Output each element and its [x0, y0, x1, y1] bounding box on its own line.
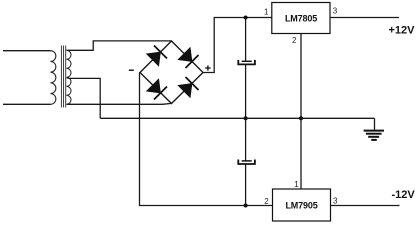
wire -12V output: [331, 205, 400, 207]
capacitor C2: [238, 160, 255, 165]
wire primary top lead: [3, 50, 51, 52]
transformer T1 core: [61, 46, 65, 108]
diode D4 (lower-right): [178, 77, 199, 98]
wire secondary top to bridge AC1: [67, 41, 172, 50]
label plus (bridge DC+): [205, 65, 210, 70]
svg-text:LM7905: LM7905: [285, 201, 317, 211]
regulator U1 LM7805: [272, 3, 330, 34]
transformer T1 secondary winding: [67, 50, 72, 104]
svg-text:+12V: +12V: [389, 25, 416, 37]
junction node B: [244, 116, 248, 120]
svg-text:-12V: -12V: [392, 189, 416, 201]
ground symbol: [364, 118, 384, 140]
diode D1 (upper-left): [146, 46, 167, 67]
wire LM7805 pin2 / LM7905 pin1 to ground rail: [300, 34, 302, 190]
svg-text:1: 1: [294, 180, 299, 189]
label minus (bridge DC-): [129, 69, 134, 71]
junction node C: [299, 116, 303, 120]
svg-text:3: 3: [333, 196, 338, 205]
bridge rectifier diamond: [140, 41, 203, 104]
regulator U2 LM7905: [273, 189, 331, 221]
svg-text:2: 2: [264, 197, 269, 206]
svg-text:2: 2: [292, 36, 297, 45]
wire primary bottom lead: [3, 103, 51, 105]
svg-text:LM7805: LM7805: [285, 13, 317, 23]
wire filter branch (C1/C2 leg): [245, 18, 247, 206]
wire +12V output: [330, 17, 399, 19]
transformer T1 primary winding: [51, 51, 56, 105]
wire center tap to ground rail: [67, 78, 101, 119]
junction node D: [244, 204, 248, 208]
diode D2 (upper-right): [178, 47, 199, 68]
wire bridge DC- to LM7905 input: [140, 73, 273, 206]
wire secondary bottom to bridge AC2: [67, 102, 172, 105]
svg-text:3: 3: [333, 7, 338, 16]
svg-text:1: 1: [264, 8, 269, 17]
wire bridge DC+ to LM7805 input: [203, 18, 272, 73]
junction node A: [244, 16, 248, 20]
capacitor C1: [238, 60, 255, 65]
wire ground rail: [100, 117, 374, 119]
diode D3 (lower-left): [146, 79, 167, 100]
